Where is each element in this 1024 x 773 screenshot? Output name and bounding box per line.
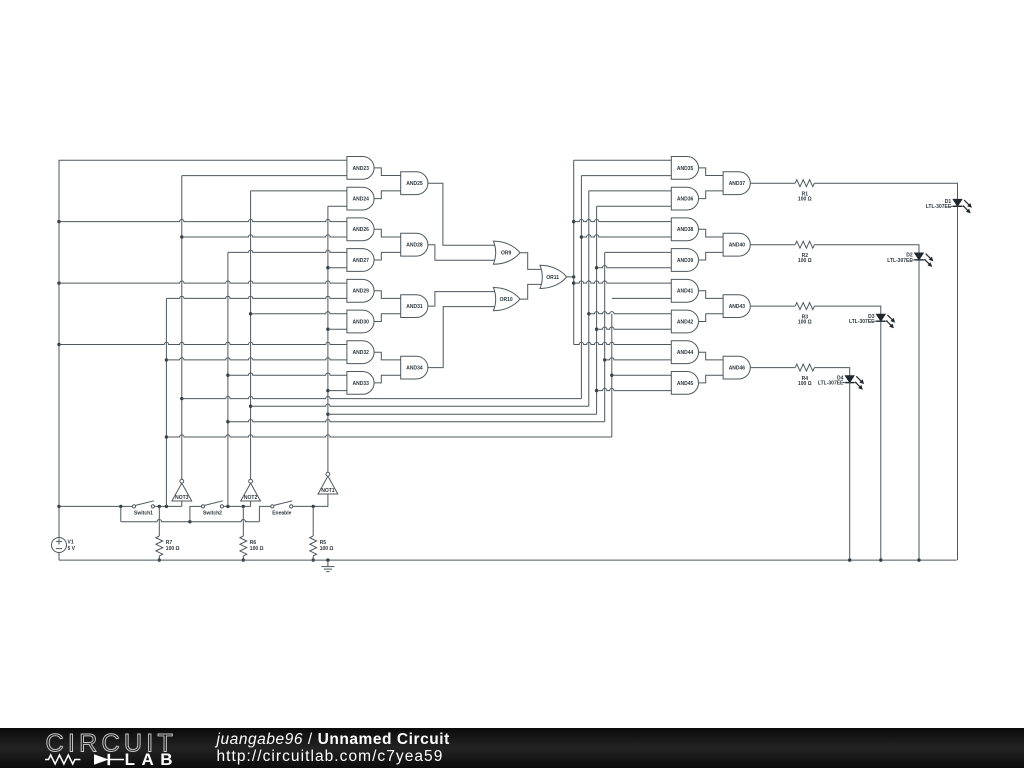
svg-text:100 Ω: 100 Ω <box>798 381 812 387</box>
wire NOT1 to AND24 input B <box>328 205 347 207</box>
wire AND32 output to AND34 input A <box>374 352 401 360</box>
wire R4 to LED D4 <box>814 368 849 376</box>
svg-text:AND34: AND34 <box>406 366 423 372</box>
AND gate AND34 <box>401 356 428 379</box>
svg-text:R6: R6 <box>250 540 257 546</box>
AND gate AND45 <box>671 372 698 395</box>
svg-text:AND27: AND27 <box>352 258 369 264</box>
junction Eneable output / R5 <box>312 505 315 508</box>
svg-text:100 Ω: 100 Ω <box>798 197 812 203</box>
logo resistor symbol <box>45 755 80 764</box>
junction bus A / AND38 row <box>572 220 575 223</box>
wire NOT2 to AND24 input A <box>251 190 347 192</box>
wire AND36 output to AND37 input B <box>699 191 724 199</box>
inverter NOT3 <box>172 479 192 501</box>
svg-text:AND42: AND42 <box>677 319 694 325</box>
AND gate AND27 <box>347 249 374 272</box>
junction Switch2 riser / AND33 row <box>226 374 229 377</box>
wire V1 bus to AND29 input A <box>59 281 347 283</box>
junction drop to lower rail <box>119 505 122 508</box>
junction D3 / ground rail <box>879 558 882 561</box>
wire AND34 output to OR10 input B <box>428 307 496 368</box>
wire Switch1 output to NOT3 input <box>155 505 182 507</box>
wire NOT1 to bus D <box>328 413 597 415</box>
wire R7 top lead <box>158 506 160 536</box>
svg-text:R7: R7 <box>166 540 173 546</box>
wire LED D2 to ground rail <box>918 260 920 560</box>
wire NOT3 to AND26 input B <box>182 235 347 237</box>
wire Switch1 to AND32 input B <box>166 358 347 360</box>
junction V1 bus / switch row <box>57 505 60 508</box>
junction bus E / AND44 row <box>603 358 606 361</box>
wire bus D to AND42 input B <box>597 327 672 329</box>
resistor R6 <box>240 536 247 556</box>
AND gate AND40 <box>723 233 750 256</box>
svg-text:AND46: AND46 <box>729 366 746 372</box>
wire AND45 output to AND46 input B <box>699 375 724 383</box>
junction ground rail / ground symbol <box>326 558 329 561</box>
svg-text:R5: R5 <box>320 540 327 546</box>
wire bus A (OR11 output) <box>573 160 575 344</box>
wire AND25 output to OR9 input A <box>428 183 496 245</box>
wire bus A to AND35 input A <box>574 159 672 161</box>
wire AND35 output to AND37 input A <box>699 168 724 176</box>
wire OR10 output to OR11 input B <box>520 284 543 299</box>
svg-text:AND40: AND40 <box>729 243 746 249</box>
junction NOT1 riser / bus D row <box>326 413 329 416</box>
ground <box>321 560 334 572</box>
wire AND24 output to AND25 input B <box>374 191 401 199</box>
junction bus F / AND45 row <box>610 374 613 377</box>
wire NOT3 output riser <box>181 176 183 480</box>
svg-text:LAB: LAB <box>125 750 179 768</box>
wire V1+ bus up and AND23 input A row <box>59 160 347 537</box>
resistor R7 <box>156 536 163 556</box>
wire Switch1 to AND29 input B <box>166 296 347 298</box>
AND gate AND38 <box>671 218 698 241</box>
AND gate AND23 <box>347 157 374 180</box>
wire bus F to AND41 input B <box>612 297 672 299</box>
junction Switch2 output / R6 <box>242 505 245 508</box>
wire AND41 output to AND43 input A <box>699 291 724 299</box>
AND gate AND42 <box>671 310 698 333</box>
svg-text:AND31: AND31 <box>406 304 423 310</box>
svg-text:OR11: OR11 <box>546 275 559 281</box>
OR gate OR11 <box>540 265 567 288</box>
wire R5 top lead <box>312 506 314 536</box>
wire AND30 output to AND31 input B <box>374 314 401 322</box>
wire NOT1 to AND30 input B <box>328 328 347 330</box>
resistor R3 <box>795 303 814 310</box>
wire OR11 output to bus A <box>567 276 574 278</box>
svg-text:AND45: AND45 <box>677 381 694 387</box>
wire bus C (NOT2) <box>588 191 590 406</box>
LED D3 <box>874 314 895 328</box>
AND gate AND30 <box>347 310 374 333</box>
svg-text:100 Ω: 100 Ω <box>166 546 180 552</box>
wire NOT2 to bus C <box>251 404 589 406</box>
wire AND39 output to AND40 input B <box>699 252 724 260</box>
voltage source V1 <box>52 538 67 553</box>
junction Switch1 riser / AND32 row <box>165 358 168 361</box>
wire AND27 output to AND28 input B <box>374 252 401 260</box>
svg-text:AND44: AND44 <box>677 350 694 356</box>
svg-text:LTL-307EE: LTL-307EE <box>887 258 913 264</box>
svg-text:100 Ω: 100 Ω <box>320 546 334 552</box>
svg-text:NOT2: NOT2 <box>244 495 258 501</box>
wire AND43 output to R3 <box>750 305 795 307</box>
wire AND26 output to AND28 input A <box>374 229 401 237</box>
AND gate AND24 <box>347 187 374 210</box>
junction V1 bus / AND26 row <box>57 220 60 223</box>
wire Switch2 to bus E <box>228 420 605 422</box>
junction Switch1 riser / bus F row <box>165 435 168 438</box>
switch Eneable <box>271 501 293 517</box>
CircuitLab logo <box>45 728 180 768</box>
svg-text:AND24: AND24 <box>352 197 369 203</box>
junction Switch2 output riser <box>226 505 229 508</box>
resistor R2 <box>795 241 814 248</box>
wire bus A to AND41 input A <box>574 281 672 283</box>
junction bus B / AND38 row <box>580 235 583 238</box>
junction NOT3 riser / AND26 row <box>180 235 183 238</box>
wire lower rail segment 1 (hops R7) <box>121 520 190 522</box>
svg-text:AND36: AND36 <box>677 197 694 203</box>
junction lower rail to Switch2 feed <box>188 520 191 523</box>
wire bus D to AND45 input B <box>597 388 672 390</box>
junction bus D / AND42 row <box>595 328 598 331</box>
wire OR9 output to OR11 input A <box>520 253 543 270</box>
svg-text:AND28: AND28 <box>406 243 423 249</box>
wire NOT3 input stub <box>181 501 183 506</box>
footer url line <box>217 748 450 765</box>
wire Switch1 riser <box>165 298 167 506</box>
wire NOT1 to AND33 input B <box>328 390 347 392</box>
wire R2 to LED D2 <box>814 245 919 253</box>
junction bus D / AND39 row <box>595 266 598 269</box>
AND gate AND32 <box>347 341 374 364</box>
wire V1+ to Switch1 left contact <box>59 505 132 507</box>
inverter NOT1 <box>318 472 338 494</box>
wire R3 to LED D3 <box>814 306 880 314</box>
svg-text:AND39: AND39 <box>677 258 694 264</box>
wire V1 bus to AND32 input A <box>59 342 347 344</box>
svg-text:NOT3: NOT3 <box>175 495 189 501</box>
svg-text:AND32: AND32 <box>352 350 369 356</box>
wire Switch2 output to NOT2 input <box>224 505 251 507</box>
wire R5 bottom lead <box>312 556 314 560</box>
junction NOT2 riser / bus C row <box>249 405 252 408</box>
junction bus C / AND42 row <box>587 312 590 315</box>
wire Switch2 to AND33 input A <box>228 373 347 375</box>
junction bus D / AND45 row <box>595 389 598 392</box>
svg-text:OR9: OR9 <box>501 251 512 257</box>
junction NOT2 riser / AND30 row <box>249 312 252 315</box>
wire Switch2 to AND27 input A <box>228 250 347 252</box>
junction NOT3 riser / bus B row <box>180 397 183 400</box>
wire bus B (NOT3) <box>580 176 582 399</box>
AND gate AND43 <box>723 295 750 318</box>
wire AND42 output to AND43 input B <box>699 314 724 322</box>
wire NOT3 to AND23 input B <box>182 175 347 177</box>
logo diode symbol <box>94 754 109 765</box>
AND gate AND41 <box>671 279 698 302</box>
wire bus F to AND45 input A <box>612 374 672 376</box>
svg-text:AND37: AND37 <box>729 181 746 187</box>
wire bus E (Switch2) <box>604 252 606 421</box>
junction bus A / AND41 row <box>572 281 575 284</box>
LED D1 <box>951 199 972 213</box>
wire bus B to AND35 input B <box>581 175 671 177</box>
junction NOT1 riser / AND27 row <box>326 266 329 269</box>
svg-text:AND26: AND26 <box>352 227 369 233</box>
wire bus D (NOT1) <box>596 206 598 414</box>
LED D2 <box>912 253 933 267</box>
wire R6 top lead <box>242 506 244 536</box>
wire LED D3 to ground rail <box>880 321 882 560</box>
svg-text:NOT1: NOT1 <box>321 488 335 494</box>
wire bus E to AND39 input A <box>605 251 672 253</box>
svg-text:OR10: OR10 <box>500 297 513 303</box>
svg-text:V1: V1 <box>68 540 74 546</box>
AND gate AND25 <box>401 172 428 195</box>
AND gate AND29 <box>347 279 374 302</box>
wire bus B to AND38 input B <box>581 235 671 237</box>
wire NOT1 to AND27 input B <box>328 267 347 269</box>
OR gate OR10 <box>493 288 520 311</box>
svg-text:LTL-307EE: LTL-307EE <box>849 319 875 325</box>
wire bus E to AND44 input B <box>605 358 672 360</box>
wire AND29 output to AND31 input A <box>374 291 401 299</box>
svg-text:100 Ω: 100 Ω <box>798 258 812 264</box>
resistor R1 <box>795 180 814 187</box>
junction V1 bus / AND29 row <box>57 281 60 284</box>
svg-text:5 V: 5 V <box>68 546 76 552</box>
svg-text:AND41: AND41 <box>677 289 694 295</box>
svg-text:AND38: AND38 <box>677 227 694 233</box>
junction NOT1 riser / AND30 row <box>326 328 329 331</box>
AND gate AND33 <box>347 372 374 395</box>
AND gate AND39 <box>671 249 698 272</box>
AND gate AND35 <box>671 157 698 180</box>
AND gate AND36 <box>671 187 698 210</box>
svg-text:AND23: AND23 <box>352 166 369 172</box>
junction R5 / ground rail <box>312 558 315 561</box>
wire V1- down to ground rail <box>58 553 60 561</box>
junction Switch1 output / R7 <box>158 505 161 508</box>
wire bus A to AND38 input A <box>574 219 672 221</box>
wire AND46 output to R4 <box>750 367 795 369</box>
wire R1 to LED D1 <box>814 183 957 199</box>
wire AND37 output to R1 <box>750 182 795 184</box>
wire NOT3 to bus B <box>182 396 582 398</box>
svg-text:AND35: AND35 <box>677 166 694 172</box>
wire LED D1 to ground rail <box>957 206 959 560</box>
wire bus C to AND36 input A <box>589 190 672 192</box>
svg-text:AND25: AND25 <box>406 181 423 187</box>
svg-text:LTL-307EE: LTL-307EE <box>926 204 952 210</box>
svg-text:Switch2: Switch2 <box>203 510 222 516</box>
resistor R4 <box>795 364 814 371</box>
svg-text:AND30: AND30 <box>352 319 369 325</box>
svg-text:Switch1: Switch1 <box>134 510 153 516</box>
junction D4 / ground rail <box>848 558 851 561</box>
junction D2 / ground rail <box>917 558 920 561</box>
wire NOT1 output riser <box>327 206 329 472</box>
wire bus A to AND44 input A <box>574 342 672 344</box>
wire bus D to AND39 input B <box>597 266 672 268</box>
wire NOT2 to AND30 input A <box>251 312 347 314</box>
wire lower rail segment 2 (hops R6) <box>190 520 260 522</box>
junction NOT1 riser / AND33 row <box>326 389 329 392</box>
wire LED D4 to ground rail <box>849 383 851 560</box>
wire AND33 output to AND34 input B <box>374 375 401 383</box>
wire rail up to Eneable left contact <box>259 506 270 521</box>
resistor R5 <box>310 536 317 556</box>
wire bus F (Switch1) <box>611 314 613 437</box>
wire V1 bus to AND26 input A <box>59 219 347 221</box>
AND gate AND26 <box>347 218 374 241</box>
AND gate AND46 <box>723 356 750 379</box>
wire NOT2 input stub <box>250 501 252 506</box>
switch Switch2 <box>201 501 223 517</box>
wire drop to lower distribution rail <box>120 506 122 521</box>
wire bus D to AND36 input B <box>597 205 672 207</box>
wire ground rail <box>59 559 957 561</box>
svg-text:LTL-307EE: LTL-307EE <box>818 381 844 387</box>
wire rail up to Switch2 left contact <box>190 506 202 521</box>
switch Switch1 <box>132 501 154 517</box>
wire AND40 output to R2 <box>750 244 795 246</box>
wire AND23 output to AND25 input A <box>374 168 401 176</box>
AND gate AND28 <box>401 233 428 256</box>
AND gate AND37 <box>723 172 750 195</box>
footer title line <box>217 731 450 748</box>
svg-text:100 Ω: 100 Ω <box>250 546 264 552</box>
wire Switch2 riser <box>227 252 229 506</box>
junction V1 bus / AND32 row <box>57 343 60 346</box>
svg-text:Eneable: Eneable <box>272 510 291 516</box>
LED D4 <box>843 376 864 390</box>
wire R7 bottom lead <box>158 556 160 560</box>
wire AND44 output to AND46 input A <box>699 352 724 360</box>
svg-text:AND43: AND43 <box>729 304 746 310</box>
wire AND28 output to OR9 input B <box>428 245 496 261</box>
junction R6 / ground rail <box>242 558 245 561</box>
wire AND38 output to AND40 input A <box>699 229 724 237</box>
junction Switch1 output riser <box>165 505 168 508</box>
junction R7 / ground rail <box>158 558 161 561</box>
wire AND31 output to OR10 input A <box>428 292 496 307</box>
wire R6 bottom lead <box>242 556 244 560</box>
wire NOT2 output riser <box>250 191 252 479</box>
AND gate AND44 <box>671 341 698 364</box>
OR gate OR9 <box>493 241 520 264</box>
svg-text:AND29: AND29 <box>352 289 369 295</box>
svg-text:AND33: AND33 <box>352 381 369 387</box>
wire Eneable output to NOT1 input <box>293 494 328 506</box>
svg-text:100 Ω: 100 Ω <box>798 320 812 326</box>
wire Switch1 to bus F <box>166 435 611 437</box>
junction OR11 output / bus A <box>572 275 575 278</box>
AND gate AND31 <box>401 295 428 318</box>
inverter NOT2 <box>241 479 261 501</box>
wire bus C to AND42 input A <box>589 312 672 314</box>
junction Switch2 riser / bus E row <box>226 420 229 423</box>
